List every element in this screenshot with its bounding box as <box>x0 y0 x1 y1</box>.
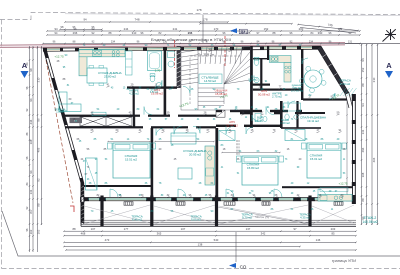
upper wall y90 wc south right <box>253 89 302 91</box>
svg-text:10.5 м2 звд: 10.5 м2 звд <box>291 90 304 92</box>
bathtub top-center <box>148 51 162 71</box>
washbasin top-center <box>156 82 161 87</box>
left dimension columns <box>29 46 31 252</box>
corridor bottom wall right <box>216 125 281 127</box>
upper wall y84 stair right <box>250 84 270 86</box>
svg-text:168: 168 <box>361 172 365 177</box>
svg-text:+12.75: +12.75 <box>339 182 348 186</box>
svg-text:178: 178 <box>202 18 207 22</box>
svg-text:131: 131 <box>163 40 168 43</box>
kitchen upper cabinet bottom-right <box>320 188 348 192</box>
svg-text:94: 94 <box>361 103 365 107</box>
svg-text:140.06 м2: 140.06 м2 <box>362 220 378 224</box>
dining table upper-left <box>87 68 107 83</box>
svg-text:177: 177 <box>124 227 129 231</box>
wardrobe bottom-left <box>86 158 98 190</box>
svg-text:Пл. 35/9.2m: Пл. 35/9.2m <box>198 53 215 57</box>
svg-text:14.50 м2: 14.50 м2 <box>204 79 216 83</box>
svg-text:4.23 м2: 4.23 м2 <box>129 92 139 96</box>
svg-text:390: 390 <box>318 31 323 35</box>
svg-text:310: 310 <box>132 31 137 35</box>
svg-text:84: 84 <box>29 210 33 214</box>
street top faint line <box>65 14 400 16</box>
old boundary red dashed diagonal <box>46 60 73 203</box>
svg-text:88: 88 <box>72 227 76 231</box>
staircase <box>181 47 251 111</box>
interior vertical wall kitchen-bath x164 <box>164 50 167 115</box>
svg-text:102: 102 <box>29 229 33 234</box>
svg-text:203: 203 <box>331 227 336 231</box>
svg-text:152: 152 <box>361 67 365 72</box>
interior vertical wall top-right x302 <box>301 47 303 100</box>
apartment wall x151 <box>151 128 154 201</box>
svg-text:745: 745 <box>327 23 333 28</box>
inner dim line right room <box>346 100 348 195</box>
red axis line top <box>174 40 176 68</box>
corridor wall piers right <box>240 110 251 115</box>
svg-text:94: 94 <box>361 58 365 62</box>
wardrobe right room <box>285 130 305 141</box>
svg-text:23.80 м2: 23.80 м2 <box>104 74 116 78</box>
svg-text:94: 94 <box>83 18 87 22</box>
svg-text:131: 131 <box>348 40 353 43</box>
property boundary dashed top-left <box>0 13 400 20</box>
bedroom1 south wall y186 <box>84 185 151 187</box>
corridor shaft hatch right <box>216 110 225 117</box>
svg-text:96: 96 <box>37 118 41 122</box>
svg-text:98: 98 <box>29 68 33 72</box>
svg-text:234: 234 <box>111 40 116 43</box>
top row extra ticks <box>119 30 121 32</box>
svg-text:кухненски: кухненски <box>292 85 303 87</box>
terrace triangle hatch top-right <box>340 88 357 96</box>
corridor top wall left half <box>62 115 216 117</box>
apt2 kitchen counter right <box>205 146 215 185</box>
svg-text:19.11 м2: 19.11 м2 <box>307 119 319 123</box>
red axis line stair <box>224 36 226 66</box>
upper wall y99 right rooms <box>303 98 347 100</box>
bath wall x297 <box>296 101 298 128</box>
svg-text:540: 540 <box>214 238 219 242</box>
sliding door dashed apt3 <box>236 140 238 156</box>
electrical board block <box>70 118 83 124</box>
svg-text:15.01 м2: 15.01 м2 <box>310 157 322 161</box>
svg-text:310: 310 <box>372 77 376 82</box>
section marker SO bottom <box>229 263 236 268</box>
top dimension vertical 178 <box>202 15 204 43</box>
lot boundary line bottom-left <box>2 211 400 256</box>
svg-text:5.60 м2: 5.60 м2 <box>340 82 351 86</box>
svg-text:85: 85 <box>331 232 335 236</box>
right room south wall y187 <box>282 186 353 188</box>
svg-text:342: 342 <box>261 232 266 236</box>
terrace diagonals <box>84 205 150 224</box>
svg-text:A: A <box>22 61 28 70</box>
svg-text:146: 146 <box>316 238 321 242</box>
svg-text:296: 296 <box>73 31 78 35</box>
svg-text:наклон 2%: наклон 2% <box>255 215 270 220</box>
svg-text:3.20 м2: 3.20 м2 <box>280 121 290 125</box>
svg-text:748: 748 <box>134 18 139 22</box>
kitchen counter top-left <box>79 50 125 57</box>
svg-text:241: 241 <box>173 27 178 31</box>
bed bedroom4 <box>307 143 341 178</box>
corridor shaft X-hatch <box>80 117 132 126</box>
section line vertical bottom <box>235 232 237 262</box>
svg-text:11,08 м2: 11,08 м2 <box>226 123 238 127</box>
tv cabinet <box>92 112 106 116</box>
svg-text:92: 92 <box>37 178 41 182</box>
top dimension row 3 <box>47 30 360 32</box>
svg-text:88: 88 <box>361 198 365 202</box>
top-right angled wall <box>318 46 350 94</box>
svg-text:466: 466 <box>372 157 376 162</box>
svg-text:107: 107 <box>91 227 96 231</box>
svg-text:200: 200 <box>299 27 304 31</box>
svg-text:131: 131 <box>361 129 365 134</box>
svg-text:5.05 м2: 5.05 м2 <box>191 218 201 222</box>
top dimension row 4 <box>47 34 360 36</box>
svg-text:107: 107 <box>181 227 186 231</box>
top dimension row 1 <box>65 21 228 23</box>
svg-text:325: 325 <box>246 31 251 35</box>
svg-text:92: 92 <box>91 27 95 31</box>
building top wall with window piers <box>43 46 321 48</box>
round table top-right terrace <box>304 70 322 88</box>
svg-text:310: 310 <box>37 77 41 82</box>
svg-text:234: 234 <box>309 40 314 43</box>
wc partition wall x268 upper <box>267 46 269 60</box>
antre wall x133 <box>133 88 135 115</box>
svg-text:170: 170 <box>214 27 219 31</box>
apt4 kitchen sink <box>271 56 278 62</box>
red axis elbow bottom-left <box>70 206 74 212</box>
svg-text:178: 178 <box>196 8 201 12</box>
kitchen counter bottom-right <box>318 195 352 202</box>
window sill lines bottom wall <box>88 199 348 200</box>
top-right sloped dimension lines <box>298 25 358 31</box>
right room wall y128 <box>281 127 321 129</box>
svg-text:96: 96 <box>29 98 33 102</box>
interior vertical wall stair right x251 <box>250 46 253 128</box>
interior door swings <box>144 58 335 135</box>
svg-text:88: 88 <box>361 83 365 87</box>
interior vertical wall bath-stair x177 hatched <box>177 46 181 88</box>
svg-text:244: 244 <box>124 27 129 31</box>
svg-text:138: 138 <box>198 242 203 246</box>
svg-text:88: 88 <box>37 203 41 207</box>
apartment wall x216 <box>215 128 218 201</box>
svg-text:15.80 м2: 15.80 м2 <box>247 166 259 170</box>
svg-text:102: 102 <box>37 229 41 234</box>
stairwell label box <box>199 74 222 84</box>
svg-text:96: 96 <box>29 170 33 174</box>
terrace slope diagonal <box>218 207 308 224</box>
apt2 table <box>178 168 192 179</box>
inner room dim lines <box>108 141 150 143</box>
wc partition wall x261 <box>260 58 262 90</box>
wc fixtures top-right <box>254 59 259 66</box>
kitchen stove <box>112 51 115 54</box>
property boundary dashed left <box>1 20 3 269</box>
svg-text:20.95 м2: 20.95 м2 <box>189 152 201 156</box>
more interior specks <box>63 67 346 197</box>
top-left small dimension row <box>60 28 102 30</box>
svg-text:466: 466 <box>37 147 41 152</box>
svg-text:468: 468 <box>81 232 86 236</box>
apt4 stove burners <box>285 66 288 69</box>
right room top wall y112 <box>295 112 325 114</box>
svg-text:137: 137 <box>246 227 251 231</box>
corridor small fixtures right <box>255 114 261 122</box>
svg-text:СО: СО <box>240 265 247 270</box>
terrace divider walls <box>100 196 103 227</box>
svg-text:296: 296 <box>361 147 365 152</box>
svg-text:192: 192 <box>338 27 343 31</box>
bed bedroom1 <box>113 143 150 178</box>
storage fixtures x166-176 <box>168 52 175 58</box>
top dimension row 5 <box>43 43 360 45</box>
bottom window wall <box>84 197 353 199</box>
svg-text:97: 97 <box>293 227 297 231</box>
svg-text:2.70 м2: 2.70 м2 <box>56 112 64 114</box>
interior teal specks <box>65 44 340 213</box>
svg-text:365: 365 <box>157 232 162 236</box>
toilet top-center <box>150 75 155 82</box>
corridor bottom wall <box>65 126 216 128</box>
property boundary dashed bottom <box>2 268 400 270</box>
bottom dimension rows <box>64 230 356 232</box>
bed bedroom3 <box>242 156 278 185</box>
svg-text:152: 152 <box>264 27 269 31</box>
left wall lower dark segments <box>81 183 84 197</box>
svg-text:15.51 м2: 15.51 м2 <box>125 157 137 161</box>
kitchen counter left leg <box>79 57 87 76</box>
right dimension columns <box>361 44 363 225</box>
kitchen sink <box>93 50 102 56</box>
interior dimension specks <box>57 48 346 197</box>
svg-text:131: 131 <box>188 31 193 35</box>
radiators under windows <box>124 202 133 205</box>
section marker PZ top <box>230 28 237 33</box>
kitchen tall cabinet <box>126 51 133 75</box>
svg-text:+12.75: +12.75 <box>54 55 64 59</box>
building left angled wall <box>43 48 81 224</box>
svg-text:50,08 м2: 50,08 м2 <box>258 92 270 96</box>
svg-text:2.75 м2: 2.75 м2 <box>272 95 282 99</box>
street regulation double line <box>0 43 345 46</box>
window sill lines top wall <box>47 48 312 50</box>
balcony doors swings bottom <box>110 189 118 197</box>
svg-text:6.45 м2: 6.45 м2 <box>132 218 142 222</box>
svg-text:131: 131 <box>29 189 33 194</box>
svg-text:9.70 м2: 9.70 м2 <box>242 216 252 220</box>
interior tick marks <box>91 51 344 198</box>
corridor top wall right half <box>216 110 302 112</box>
svg-text:168: 168 <box>29 139 33 144</box>
svg-text:94: 94 <box>54 27 58 31</box>
north compass star <box>383 29 397 42</box>
left wall window hatch <box>80 197 84 202</box>
svg-text:234: 234 <box>29 119 33 124</box>
upper wall y87 kitchen south <box>127 86 177 88</box>
terrace band outline <box>81 225 356 227</box>
svg-text:19,08 м2: 19,08 м2 <box>151 91 163 95</box>
svg-text:4.35 м2: 4.35 м2 <box>300 216 310 220</box>
svg-text:473: 473 <box>105 238 110 242</box>
top dimension row 2 <box>200 23 292 25</box>
corridor shaft wall x134 <box>133 115 135 128</box>
top wall window cream fills <box>47 46 312 50</box>
sofa upper-left <box>59 92 67 111</box>
svg-text:A: A <box>386 61 392 70</box>
banya apt4 tub <box>284 103 301 111</box>
apt2 sofa top <box>171 133 196 144</box>
apartment wall x281 <box>280 101 283 128</box>
svg-text:2.70: 2.70 <box>155 69 161 73</box>
svg-text:граница УПИ: граница УПИ <box>332 258 356 263</box>
bottom wall window cream fills <box>89 197 346 201</box>
wardrobe apt3 <box>219 131 235 141</box>
building right wall <box>352 94 354 204</box>
apt4 kitchen counter L <box>270 56 292 63</box>
